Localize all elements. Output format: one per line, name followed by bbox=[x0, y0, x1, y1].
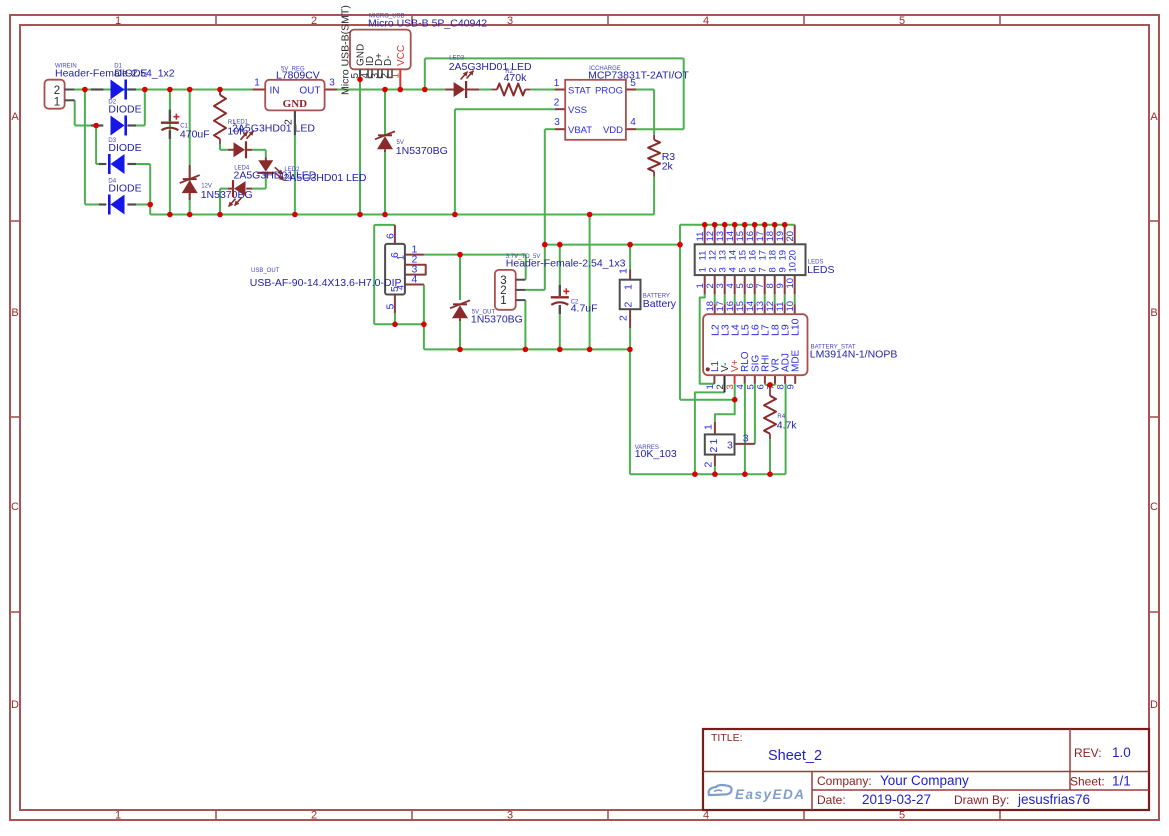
svg-text:A: A bbox=[1150, 111, 1158, 123]
svg-text:DIODE: DIODE bbox=[114, 68, 147, 80]
svg-text:9: 9 bbox=[786, 384, 797, 389]
svg-text:6: 6 bbox=[385, 233, 397, 239]
resistor R1 10K bbox=[214, 90, 246, 145]
svg-text:3: 3 bbox=[507, 15, 513, 27]
svg-text:STAT: STAT bbox=[568, 86, 591, 97]
svg-text:3: 3 bbox=[507, 810, 513, 822]
svg-text:LM3914N-1/NOPB: LM3914N-1/NOPB bbox=[810, 349, 898, 361]
svg-text:470uF: 470uF bbox=[180, 129, 210, 141]
wire 5V bus bbox=[337, 79, 555, 214]
svg-text:1/1: 1/1 bbox=[1112, 774, 1131, 789]
svg-text:10: 10 bbox=[788, 262, 799, 273]
capacitor C2 4.7uF bbox=[551, 285, 598, 314]
svg-text:OUT: OUT bbox=[299, 86, 320, 97]
svg-text:3: 3 bbox=[554, 117, 560, 128]
LED LED1 2A5G3HD01 bbox=[228, 119, 316, 158]
svg-text:Sheet_2: Sheet_2 bbox=[768, 748, 822, 764]
svg-text:DIODE: DIODE bbox=[108, 183, 141, 195]
svg-text:1: 1 bbox=[254, 78, 260, 89]
svg-text:20: 20 bbox=[788, 250, 799, 261]
svg-text:2A5G3HD01 LED: 2A5G3HD01 LED bbox=[284, 172, 367, 184]
svg-text:470k: 470k bbox=[504, 72, 528, 84]
svg-text:L10: L10 bbox=[790, 318, 802, 336]
svg-text:4.7k: 4.7k bbox=[777, 420, 798, 432]
IC U3 LM3914N-1/NOPB bbox=[703, 301, 897, 392]
svg-text:5: 5 bbox=[899, 810, 905, 822]
IC U2 MCP73831T-2ATI/OT bbox=[554, 66, 690, 140]
LED LED3 2A5G3HD01 bbox=[446, 56, 532, 99]
svg-text:1: 1 bbox=[623, 284, 635, 290]
svg-text:1: 1 bbox=[708, 439, 720, 445]
wire USB_OUT nets bbox=[374, 225, 526, 350]
svg-text:1: 1 bbox=[618, 268, 630, 274]
svg-text:5: 5 bbox=[899, 15, 905, 27]
wire LED cathodes bbox=[700, 294, 795, 384]
wire 3.7V rail bbox=[525, 245, 680, 290]
resistor R4 4.7k bbox=[764, 385, 797, 439]
diode D1 DIODE bbox=[91, 63, 148, 99]
wire regulator ground bbox=[294, 135, 296, 214]
svg-text:A: A bbox=[11, 111, 19, 123]
svg-text:2k: 2k bbox=[662, 160, 674, 172]
svg-text:VSS: VSS bbox=[568, 105, 587, 116]
svg-text:MCP73831T-2ATI/OT: MCP73831T-2ATI/OT bbox=[588, 69, 689, 81]
svg-text:4.7uF: 4.7uF bbox=[571, 302, 598, 314]
wire MCP73831 nets bbox=[455, 90, 654, 245]
svg-text:B: B bbox=[11, 307, 18, 319]
svg-text:3: 3 bbox=[727, 440, 733, 452]
svg-text:1: 1 bbox=[54, 97, 60, 109]
svg-text:D: D bbox=[11, 699, 19, 711]
battery BATTERY bbox=[618, 268, 677, 328]
svg-text:TITLE:: TITLE: bbox=[711, 732, 743, 744]
svg-text:10: 10 bbox=[785, 278, 796, 289]
svg-text:DIODE: DIODE bbox=[108, 104, 141, 116]
svg-text:D: D bbox=[1150, 699, 1158, 711]
svg-text:jesusfrias76: jesusfrias76 bbox=[1017, 792, 1090, 807]
connector P1 WIREIN Header-Female-2.54_1x2 bbox=[45, 64, 175, 109]
svg-text:2: 2 bbox=[311, 15, 317, 27]
svg-text:1: 1 bbox=[390, 73, 401, 79]
wire LED anode bus and V+ feed bbox=[680, 225, 795, 400]
svg-text:2A5G3HD01 LED: 2A5G3HD01 LED bbox=[232, 123, 315, 135]
connector USB_OUT USB-AF-90-14.4X13.6-H7.0-DIP bbox=[250, 225, 426, 314]
svg-text:2: 2 bbox=[623, 302, 635, 308]
svg-text:GND: GND bbox=[283, 98, 308, 110]
svg-text:Your Company: Your Company bbox=[880, 773, 969, 788]
diode D4 DIODE bbox=[99, 178, 142, 214]
svg-text:USB-AF-90-14.4X13.6-H7.0-DIP: USB-AF-90-14.4X13.6-H7.0-DIP bbox=[250, 277, 402, 289]
svg-text:3: 3 bbox=[743, 433, 749, 445]
svg-text:1N5370BG: 1N5370BG bbox=[396, 145, 448, 157]
svg-text:4: 4 bbox=[703, 15, 709, 27]
svg-text:2: 2 bbox=[618, 315, 630, 321]
svg-text:REV:: REV: bbox=[1074, 746, 1102, 760]
svg-text:VCC: VCC bbox=[396, 45, 407, 66]
svg-text:1: 1 bbox=[703, 424, 715, 430]
svg-text:20: 20 bbox=[785, 231, 796, 242]
svg-text:10K_103: 10K_103 bbox=[635, 448, 677, 460]
svg-text:C: C bbox=[1150, 501, 1158, 513]
svg-text:3: 3 bbox=[329, 78, 335, 89]
svg-text:VBAT: VBAT bbox=[568, 125, 592, 136]
svg-text:2019-03-27: 2019-03-27 bbox=[862, 792, 931, 807]
svg-text:Drawn By:: Drawn By: bbox=[954, 793, 1009, 807]
svg-text:4: 4 bbox=[630, 117, 636, 128]
svg-text:1: 1 bbox=[115, 15, 121, 27]
svg-text:5: 5 bbox=[385, 304, 397, 310]
potentiometer VARRES 10K_103 bbox=[635, 422, 755, 468]
svg-text:Date:: Date: bbox=[817, 793, 846, 807]
resistor R2 470k bbox=[491, 69, 530, 95]
wire VDD loop bbox=[425, 58, 684, 129]
svg-text:Battery: Battery bbox=[643, 298, 677, 310]
svg-text:D-: D- bbox=[383, 55, 394, 66]
svg-text:1: 1 bbox=[500, 295, 506, 307]
LED LED2 2A5G3HD01 bbox=[228, 167, 367, 207]
svg-text:1: 1 bbox=[396, 255, 406, 260]
svg-text:2: 2 bbox=[311, 810, 317, 822]
svg-text:2: 2 bbox=[703, 462, 715, 468]
svg-text:IN: IN bbox=[270, 86, 280, 97]
wire LED chain bbox=[220, 90, 266, 215]
capacitor C1 470uF bbox=[161, 110, 210, 141]
zener diode 5V 1N5370BG bbox=[375, 131, 448, 157]
zener diode 5V_OUT 1N5370BG bbox=[450, 300, 523, 325]
svg-text:1N5370BG: 1N5370BG bbox=[471, 313, 523, 325]
svg-text:2: 2 bbox=[54, 85, 60, 97]
title block bbox=[703, 729, 1149, 810]
svg-text:2: 2 bbox=[554, 97, 560, 108]
connector 3.7V_TO_5V Header-Female-2.54_1x3 bbox=[495, 254, 626, 310]
wire C1 and 12V zener branches bbox=[170, 90, 190, 215]
svg-text:C: C bbox=[11, 501, 19, 513]
svg-text:USB_OUT: USB_OUT bbox=[251, 268, 280, 274]
svg-text:1: 1 bbox=[115, 810, 121, 822]
svg-text:LEDS: LEDS bbox=[807, 264, 834, 276]
connector MICRO_USB Micro USB-B 5P_C40942 bbox=[340, 5, 488, 95]
wire ground bus bbox=[150, 214, 654, 216]
diode D3 DIODE bbox=[99, 138, 142, 174]
diode D2 DIODE bbox=[91, 99, 142, 135]
wire mid ground bus bbox=[424, 215, 786, 475]
svg-text:1.0: 1.0 bbox=[1112, 745, 1131, 760]
svg-text:Micro USB-B 5P_C40942: Micro USB-B 5P_C40942 bbox=[368, 18, 487, 30]
voltage regulator U1 L7809CV bbox=[253, 66, 338, 135]
svg-text:L7809CV: L7809CV bbox=[276, 70, 320, 82]
svg-text:MDE: MDE bbox=[791, 349, 802, 372]
svg-text:PROG: PROG bbox=[595, 86, 623, 97]
svg-text:B: B bbox=[1150, 307, 1157, 319]
wire input bridge net bbox=[75, 90, 253, 215]
svg-text:4: 4 bbox=[703, 810, 709, 822]
zener diode 12V 1N5370BG bbox=[180, 165, 253, 201]
svg-text:2: 2 bbox=[708, 447, 720, 453]
svg-text:Sheet:: Sheet: bbox=[1070, 775, 1105, 789]
svg-text:Header-Female-2.54_1x3: Header-Female-2.54_1x3 bbox=[506, 257, 626, 269]
svg-text:2: 2 bbox=[283, 119, 295, 125]
svg-text:4: 4 bbox=[412, 274, 418, 286]
svg-text:1: 1 bbox=[554, 78, 560, 89]
svg-text:VDD: VDD bbox=[603, 125, 623, 136]
svg-text:EasyEDA: EasyEDA bbox=[735, 787, 806, 802]
svg-text:10: 10 bbox=[785, 301, 796, 312]
wire LM3914 nets bbox=[695, 384, 786, 474]
svg-text:Company:: Company: bbox=[817, 774, 872, 788]
LED LED4 2A5G3HD01 bbox=[234, 158, 317, 182]
LED bar LEDS bbox=[695, 225, 835, 295]
svg-text:DIODE: DIODE bbox=[108, 142, 141, 154]
svg-text:Micro USB-B(SMT): Micro USB-B(SMT) bbox=[340, 5, 352, 95]
resistor R3 2k bbox=[648, 135, 675, 177]
